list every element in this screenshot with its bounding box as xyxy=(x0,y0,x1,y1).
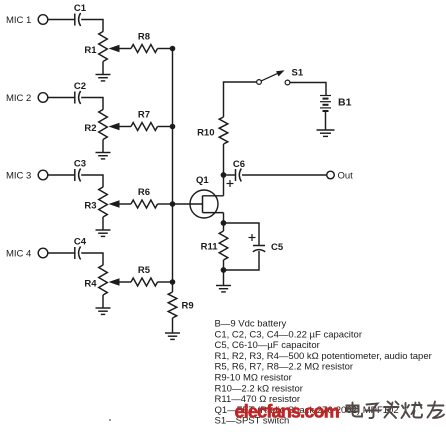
watermark chinese char dian xyxy=(347,403,363,417)
svg-text:R10—2.2 kΩ resistor: R10—2.2 kΩ resistor xyxy=(215,383,303,394)
ground xyxy=(96,74,111,76)
wire xyxy=(102,62,104,75)
ground (R9) xyxy=(165,332,180,334)
wire xyxy=(226,174,235,176)
potentiometer R3 xyxy=(99,187,108,217)
ground xyxy=(96,152,111,154)
wire (drain) xyxy=(223,175,225,196)
MIC 2 input terminal xyxy=(38,93,48,103)
MIC 1 input terminal xyxy=(38,15,48,25)
wire xyxy=(48,252,75,254)
svg-text:B1: B1 xyxy=(338,97,352,109)
svg-text:R4: R4 xyxy=(84,279,97,290)
svg-text:C2: C2 xyxy=(74,81,86,92)
transistor Q1 xyxy=(190,190,224,218)
R3 wiper arrow xyxy=(109,200,132,208)
svg-text:MIC 4: MIC 4 xyxy=(6,249,31,260)
resistor R7 xyxy=(131,123,158,131)
svg-text:C4: C4 xyxy=(74,237,87,248)
svg-text:MIC 1: MIC 1 xyxy=(6,15,31,26)
wire xyxy=(158,48,173,50)
ground xyxy=(96,229,111,231)
svg-text:MIC 2: MIC 2 xyxy=(6,93,31,104)
svg-text:R6: R6 xyxy=(138,187,150,198)
ground xyxy=(96,307,111,309)
potentiometer R4 xyxy=(99,265,108,295)
wire xyxy=(290,83,326,96)
svg-text:R5, R6, R7, R8—2.2 MΩ resistor: R5, R6, R7, R8—2.2 MΩ resistor xyxy=(215,362,354,373)
wire xyxy=(172,282,174,292)
switch S1 xyxy=(257,70,290,85)
svg-text:C5: C5 xyxy=(271,242,284,253)
node R11 bottom junction xyxy=(221,267,227,273)
svg-text:R9: R9 xyxy=(182,301,194,312)
wire xyxy=(102,217,104,230)
wire xyxy=(223,260,225,270)
watermark chinese char shao xyxy=(402,403,423,419)
svg-text:C1, C2, C3, C4—0.22 µF capacit: C1, C2, C3, C4—0.22 µF capacitor xyxy=(215,329,363,340)
wire xyxy=(325,112,327,130)
wire xyxy=(224,82,257,117)
wire xyxy=(81,175,103,187)
wire xyxy=(102,295,104,308)
wire xyxy=(242,174,327,176)
svg-text:Out: Out xyxy=(338,171,354,182)
svg-text:C5, C6-10—µF capacitor: C5, C6-10—µF capacitor xyxy=(215,340,320,351)
wire xyxy=(224,251,260,270)
node drain junction xyxy=(221,172,227,178)
wire xyxy=(158,281,173,283)
resistor R8 xyxy=(131,45,158,53)
wire xyxy=(158,126,173,128)
resistor R6 xyxy=(131,200,158,208)
svg-text:R1: R1 xyxy=(84,45,97,56)
wire xyxy=(81,98,103,110)
MIC 4 input terminal xyxy=(38,248,48,258)
resistor R11 xyxy=(219,231,228,260)
Out terminal xyxy=(327,171,335,179)
R1 wiper arrow xyxy=(109,45,132,53)
svg-text:C3: C3 xyxy=(74,159,86,170)
capacitor C3 xyxy=(75,169,81,182)
svg-text:R5: R5 xyxy=(138,265,151,276)
wire xyxy=(48,19,75,21)
capacitor C1 xyxy=(75,13,81,26)
watermark chinese char you xyxy=(428,402,445,419)
svg-text:R7: R7 xyxy=(138,110,150,121)
svg-text:R2: R2 xyxy=(84,123,96,134)
resistor R5 xyxy=(131,278,158,286)
scan speck xyxy=(109,419,111,421)
svg-text:R11: R11 xyxy=(201,242,219,253)
node junction row 1 xyxy=(170,46,176,52)
svg-text:B—9 Vdc battery: B—9 Vdc battery xyxy=(215,319,287,330)
wire (source) xyxy=(223,213,225,223)
svg-text:R9-10 MΩ resistor: R9-10 MΩ resistor xyxy=(215,373,292,384)
resistor R9 xyxy=(168,292,177,318)
wire xyxy=(223,270,225,285)
svg-text:C6: C6 xyxy=(233,159,245,170)
R4 wiper arrow xyxy=(109,278,132,286)
svg-text:MIC 3: MIC 3 xyxy=(6,171,31,182)
node source junction xyxy=(221,220,227,226)
potentiometer R2 xyxy=(99,110,108,140)
capacitor C5 xyxy=(253,246,265,252)
capacitor C4 xyxy=(75,247,81,260)
wire xyxy=(102,140,104,153)
capacitor C2 xyxy=(75,91,81,104)
battery B1 xyxy=(320,96,331,112)
resistor R10 xyxy=(219,117,228,144)
svg-text:S1: S1 xyxy=(292,68,304,79)
wire xyxy=(81,253,103,265)
wire xyxy=(48,97,75,99)
summing bus wire xyxy=(172,49,174,283)
ground (battery) xyxy=(317,129,335,131)
ground (R11) xyxy=(216,285,231,287)
node junction row 4 xyxy=(170,279,176,285)
C6 polarity plus xyxy=(227,180,234,187)
svg-text:C1: C1 xyxy=(74,3,87,14)
wire xyxy=(223,223,225,231)
capacitor C6 xyxy=(236,169,242,182)
svg-text:R1, R2, R3, R4—500 kΩ potentio: R1, R2, R3, R4—500 kΩ potentiometer, aud… xyxy=(215,351,432,362)
svg-text:R3: R3 xyxy=(84,201,96,212)
watermark chinese char zi xyxy=(366,404,381,419)
R2 wiper arrow xyxy=(109,123,132,131)
node junction row 3 xyxy=(170,201,176,207)
watermark chinese char fa xyxy=(384,402,399,419)
wire xyxy=(81,20,103,32)
svg-text:R8: R8 xyxy=(138,32,150,43)
wire xyxy=(48,174,75,176)
wire xyxy=(158,203,173,205)
svg-text:elecfans.com: elecfans.com xyxy=(235,402,339,422)
node junction row 2 xyxy=(170,124,176,130)
wire xyxy=(223,144,225,175)
wire xyxy=(172,318,174,333)
potentiometer R1 xyxy=(99,32,108,62)
wire (gate) xyxy=(173,203,203,205)
C5 polarity plus xyxy=(249,234,256,241)
svg-text:Q1: Q1 xyxy=(196,175,209,186)
MIC 3 input terminal xyxy=(38,170,48,180)
wire xyxy=(224,223,260,245)
svg-text:R10: R10 xyxy=(197,128,214,139)
